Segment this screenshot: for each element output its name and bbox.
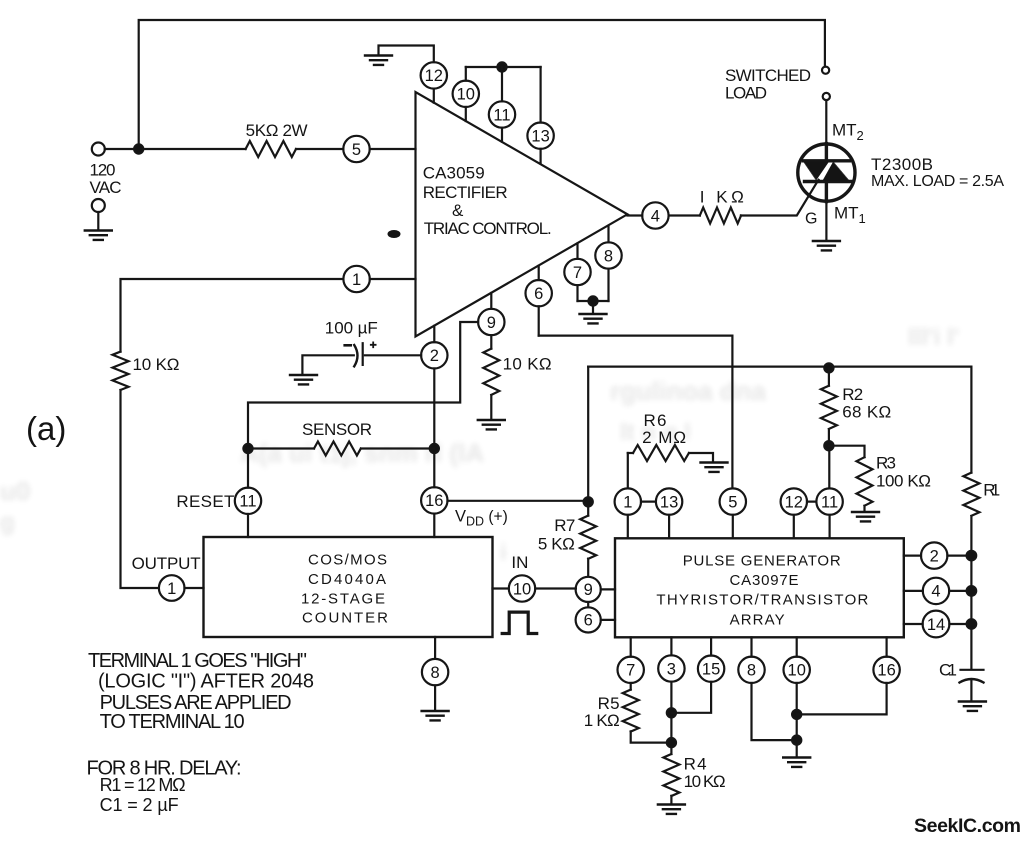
svg-text:100 KΩ: 100 KΩ	[876, 472, 931, 491]
svg-text:7: 7	[626, 662, 635, 680]
svg-text:11: 11	[239, 493, 256, 511]
wire VDD to R7	[448, 500, 589, 502]
svg-text:&: &	[452, 201, 464, 220]
ground 120 VAC	[85, 231, 112, 240]
svg-text:10 KΩ: 10 KΩ	[133, 355, 180, 374]
svg-text:8: 8	[747, 662, 756, 680]
pin 7 (triangle)	[564, 259, 590, 285]
svg-text:RESET: RESET	[176, 492, 234, 511]
wire pins 7-8 join	[578, 301, 609, 313]
svg-text:6: 6	[534, 285, 543, 303]
pin 4	[627, 214, 642, 216]
capacitor polarity signs	[343, 344, 352, 347]
pulse glyph	[502, 612, 537, 633]
wire top bus	[139, 20, 825, 147]
svg-text:4: 4	[651, 207, 660, 225]
svg-text:VAC: VAC	[90, 178, 122, 197]
pin 5	[343, 136, 369, 162]
svg-text:rgulinoa dna: rgulinoa dna	[610, 376, 767, 406]
pin 13 (pulse gen)	[656, 488, 682, 514]
wire 120 VAC to resistor	[105, 148, 246, 150]
svg-text:9: 9	[584, 581, 593, 599]
svg-text:1: 1	[352, 271, 361, 289]
resistor R2 68 KΩ	[824, 363, 833, 372]
wire pin5 to triangle	[370, 148, 416, 150]
pin 12	[421, 62, 447, 88]
wire switch to triac MT2	[825, 100, 827, 144]
pin 10 (pulse gen bottom)	[784, 657, 810, 683]
svg-text:R4: R4	[684, 755, 707, 774]
svg-text:13: 13	[660, 493, 678, 511]
pin 10	[453, 81, 479, 107]
annotation delay note	[87, 758, 242, 816]
pin OUTPUT 1 (counter)	[159, 575, 185, 601]
svg-text:C1 = 2 µF: C1 = 2 µF	[100, 795, 179, 815]
svg-text:8: 8	[604, 247, 613, 265]
svg-text:(LOGIC "I") AFTER 2048: (LOGIC "I") AFTER 2048	[98, 671, 314, 693]
svg-text:T2300B: T2300B	[871, 155, 933, 174]
sensor node dots	[243, 444, 252, 453]
resistor R3 100 KΩ	[829, 446, 865, 458]
pin 4 (pulse gen right)	[904, 590, 923, 592]
svg-text:R2: R2	[842, 385, 863, 404]
ground pin 12	[365, 56, 392, 65]
resistor R1	[963, 473, 979, 516]
svg-text:10: 10	[513, 580, 531, 598]
svg-text:1 KΩ: 1 KΩ	[584, 711, 620, 730]
svg-text:RECTIFIER: RECTIFIER	[423, 183, 508, 202]
pin 8 (pulse gen bottom)	[738, 657, 764, 683]
pin 2 (pulse gen right)	[904, 554, 921, 556]
wire pin 9 to sensor node	[248, 322, 478, 449]
resistor 10 KΩ (left)	[113, 352, 129, 390]
svg-text:2 MΩ: 2 MΩ	[642, 428, 686, 447]
svg-text:C1: C1	[939, 661, 957, 680]
svg-text:R1: R1	[983, 481, 1000, 500]
svg-text:12: 12	[425, 67, 443, 85]
pin 16 (counter) VDD	[421, 487, 447, 513]
junction dot	[134, 144, 143, 153]
svg-text:12: 12	[785, 493, 803, 511]
wire to OUTPUT	[121, 390, 159, 588]
triac Q1 T2300B	[798, 144, 855, 202]
svg-text:R5: R5	[598, 694, 620, 713]
resistor R5 1 KΩ	[623, 690, 639, 732]
svg-text:5KΩ 2W: 5KΩ 2W	[246, 121, 308, 140]
svg-text:100 µF: 100 µF	[325, 319, 378, 338]
svg-text:15: 15	[702, 661, 720, 679]
op-amp U1 CA3059 triangle	[416, 92, 628, 337]
svg-text:g: g	[0, 509, 15, 536]
capacitor C1	[961, 670, 984, 701]
terminal 120 VAC	[92, 143, 105, 156]
svg-text:4: 4	[931, 583, 940, 601]
svg-text:G: G	[805, 211, 817, 228]
svg-text:1: 1	[167, 580, 176, 598]
pin 6 (triangle)	[526, 280, 552, 306]
svg-text:OUTPUT: OUTPUT	[132, 554, 201, 573]
pin IN 10 (counter)	[493, 587, 509, 589]
svg-text:R7: R7	[554, 516, 575, 535]
svg-text:3: 3	[667, 660, 676, 678]
svg-text:R1 = 12 MΩ: R1 = 12 MΩ	[100, 775, 186, 795]
svg-text:R3: R3	[876, 453, 896, 472]
ground triac MT1	[825, 202, 827, 240]
resistor 10 KΩ (pin 9)	[483, 349, 499, 395]
svg-text:MAX. LOAD = 2.5A: MAX. LOAD = 2.5A	[871, 173, 1004, 190]
pin 8 (counter)	[422, 659, 448, 685]
svg-text:13: 13	[531, 128, 549, 146]
svg-text:14: 14	[927, 616, 945, 634]
svg-text:6: 6	[584, 612, 593, 630]
resistor R4 10 KΩ	[663, 754, 679, 796]
pulse generator U3 CA3097E box	[615, 538, 904, 637]
pin 9 (pulse gen)	[576, 577, 601, 602]
svg-text:5: 5	[352, 141, 361, 159]
svg-text:lll'i l': lll'i l'	[908, 324, 959, 351]
svg-text:A(a ui t1j, snm rl (lA: A(a ui t1j, snm rl (lA	[240, 438, 484, 468]
svg-text:THYRISTOR/TRANSISTOR: THYRISTOR/TRANSISTOR	[656, 592, 868, 609]
svg-text:16: 16	[877, 662, 895, 680]
resistor SENSOR	[248, 447, 314, 449]
svg-text:LOAD: LOAD	[725, 84, 767, 103]
resistor R7 5 KΩ	[587, 367, 589, 516]
scan blob artifact	[388, 230, 401, 238]
pin 5 (pulse gen)	[720, 488, 746, 514]
pin 14 (pulse gen right)	[904, 623, 923, 625]
svg-text:TERMINAL 1 GOES "HIGH": TERMINAL 1 GOES "HIGH"	[88, 650, 307, 672]
pulse generator box text	[656, 553, 868, 629]
svg-text:SWITCHED: SWITCHED	[725, 66, 811, 85]
ground R4	[658, 805, 685, 814]
pin 15 (pulse gen bottom)	[698, 656, 724, 682]
svg-text:2: 2	[930, 547, 939, 565]
pin 11	[489, 101, 515, 127]
svg-text:120: 120	[90, 160, 116, 179]
svg-text:SeekIC.com: SeekIC.com	[914, 815, 1021, 837]
resistor 1 KΩ	[700, 208, 741, 224]
wire pin6 to pulse gen pin 5	[539, 336, 733, 489]
ground capacitor	[290, 375, 317, 384]
svg-text:COS/MOS: COS/MOS	[308, 552, 387, 569]
pin 6 (pulse gen)	[576, 607, 601, 632]
svg-text:8: 8	[431, 664, 440, 682]
svg-text:11: 11	[493, 106, 510, 124]
svg-text:5 KΩ: 5 KΩ	[538, 535, 575, 554]
svg-text:10: 10	[788, 662, 806, 680]
pin 8 (triangle)	[595, 242, 621, 268]
ground pin 8 counter	[422, 711, 449, 720]
ground C1	[959, 702, 986, 711]
pin 2 (triangle)	[421, 342, 447, 368]
svg-text:TRIAC CONTROL.: TRIAC CONTROL.	[424, 219, 552, 238]
svg-text:5: 5	[728, 493, 737, 511]
counter box text	[301, 552, 388, 627]
svg-text:12-STAGE: 12-STAGE	[301, 591, 385, 608]
svg-text:SENSOR: SENSOR	[302, 420, 372, 439]
wire to triac gate	[741, 180, 819, 216]
capacitor 100 µF	[302, 343, 421, 374]
junction dot	[497, 62, 506, 71]
svg-text:9: 9	[487, 314, 496, 332]
wire pins 10-11-13 bus	[466, 66, 541, 68]
top horizontal bus to R2/R1	[588, 367, 971, 473]
pin RESET 11 (counter)	[247, 449, 249, 488]
svg-text:7: 7	[573, 264, 582, 282]
pin 1 (triangle)	[343, 266, 369, 292]
svg-text:16: 16	[425, 492, 443, 510]
svg-text:CA3097E: CA3097E	[730, 572, 799, 589]
svg-text:u0: u0	[0, 476, 30, 506]
pin 1 (pulse gen)	[615, 488, 641, 514]
svg-text:10: 10	[457, 86, 475, 104]
pin 13	[527, 123, 553, 149]
svg-text:11: 11	[821, 493, 838, 511]
resistor 5KΩ 2W	[246, 141, 296, 157]
SECTION: faint scan artifacts	[0, 324, 959, 566]
svg-text:PULSE GENERATOR: PULSE GENERATOR	[683, 553, 841, 570]
resistor R6 2 MΩ	[628, 452, 633, 454]
svg-text:TO TERMINAL 10: TO TERMINAL 10	[100, 711, 245, 733]
ground R6	[701, 463, 728, 472]
svg-text:(a): (a)	[26, 410, 66, 447]
pin digits	[167, 67, 945, 682]
svg-text:ARRAY: ARRAY	[730, 612, 785, 629]
pin 3 (pulse gen bottom)	[658, 655, 684, 681]
pin 16 (pulse gen bottom)	[873, 657, 899, 683]
switch SWITCHED LOAD	[822, 67, 829, 74]
svg-text:10 KΩ: 10 KΩ	[684, 772, 726, 791]
pin 7 (pulse gen bottom)	[618, 657, 644, 683]
ground pins 7-8	[580, 314, 607, 323]
svg-text:2: 2	[430, 347, 439, 365]
svg-text:10 KΩ: 10 KΩ	[503, 355, 552, 374]
annotation terminal note	[88, 650, 314, 733]
ground R3	[852, 512, 879, 521]
svg-text:CA3059: CA3059	[423, 164, 485, 183]
pin 12 (pulse gen)	[781, 488, 807, 514]
wire resistor to pin 5	[296, 148, 343, 150]
svg-text:IN: IN	[511, 553, 528, 572]
svg-text:68 KΩ: 68 KΩ	[842, 403, 891, 422]
svg-text:1: 1	[623, 493, 632, 511]
pin 9 (triangle)	[478, 309, 504, 335]
pin 11 (pulse gen)	[816, 488, 842, 514]
ground pin 9 resistor	[478, 420, 505, 429]
ground pin 10	[783, 758, 810, 767]
counter U2 CD4040A box	[204, 537, 493, 637]
